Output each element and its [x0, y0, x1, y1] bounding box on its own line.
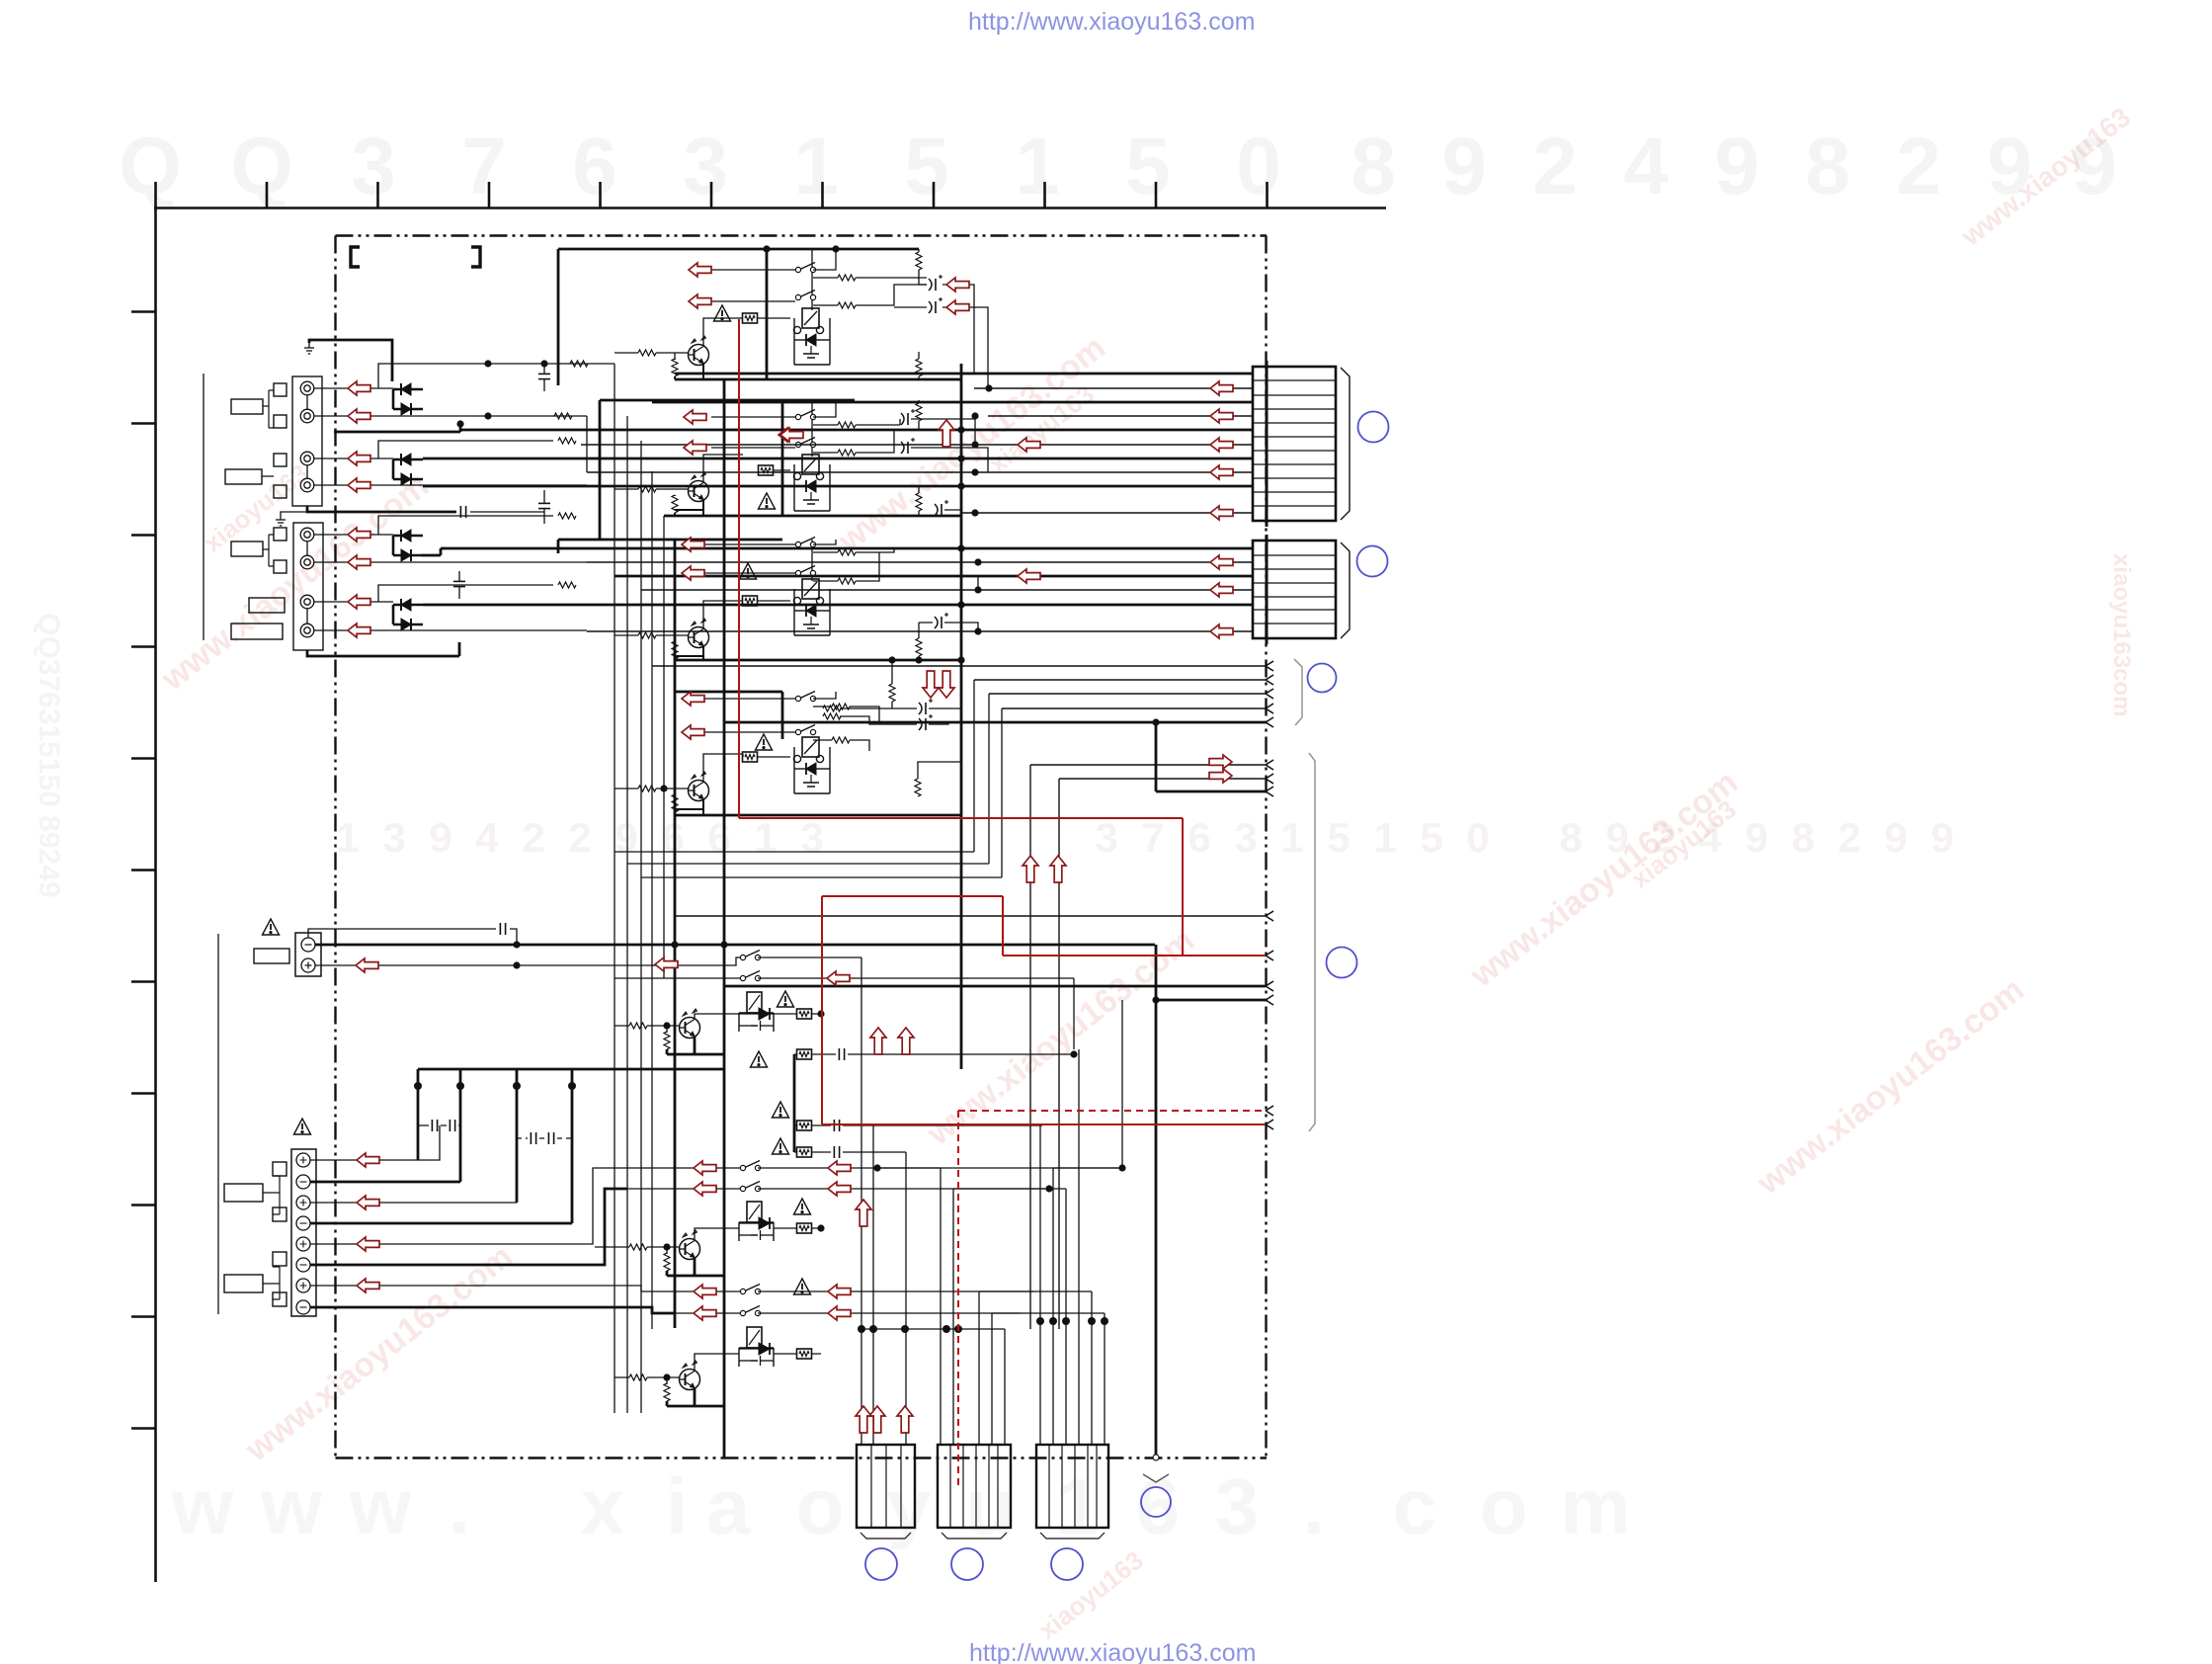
cap C on x551 — [538, 374, 550, 378]
emitter resistor Q5 — [664, 1032, 670, 1049]
wire drop x917 — [905, 1152, 907, 1445]
arrow ch6 Ra — [828, 1161, 851, 1175]
connector CN-8 box — [291, 1149, 316, 1316]
resistor vertical ch3 left — [889, 684, 895, 702]
jack J7 — [300, 595, 314, 609]
base resistor Q6 — [629, 1244, 647, 1250]
wire harness y717 — [1002, 707, 1266, 709]
boxed resistor ch6 — [797, 1223, 812, 1233]
base resistor Q7 — [629, 1374, 647, 1380]
wire bus y435 thick — [460, 429, 1253, 432]
wire bus y421 thin — [988, 415, 1253, 417]
warning triangle near CN-mid — [263, 919, 280, 935]
switch S4b — [795, 725, 815, 735]
junction dots cap bank — [414, 1082, 576, 1090]
emitter resistor Q4 — [672, 794, 678, 812]
resistor vertical ch4 right — [915, 779, 921, 796]
svg-text:4: 4 — [1623, 122, 1669, 211]
wire drop x1079 — [1049, 1189, 1066, 1445]
blue circle CNB2 — [951, 1548, 983, 1580]
wire resbox4 link — [743, 754, 790, 757]
wire S2c row453-458 — [711, 430, 894, 453]
rail ch2 bottom thick y522 — [664, 515, 961, 518]
connector CN-mid 2pin — [295, 933, 321, 976]
svg-text:4: 4 — [475, 814, 499, 861]
red wire vertical x832 — [821, 896, 823, 1124]
resistor R row522 — [558, 513, 576, 519]
transistor Q4 — [689, 772, 709, 801]
ecap ch2 a — [901, 409, 915, 425]
switch S2a — [795, 410, 815, 420]
wire S1a row273 — [711, 249, 836, 270]
jack J5 — [300, 528, 314, 541]
arrow ch1 a — [689, 263, 711, 277]
arrow up ch5 b — [898, 1028, 914, 1054]
svg-text:x: x — [581, 1462, 625, 1550]
top ticks — [154, 182, 157, 208]
svg-text:3: 3 — [1095, 814, 1117, 861]
wire harness vert x986 — [614, 680, 974, 852]
arrow bus y478 — [1210, 465, 1233, 479]
wire drop x884 — [872, 1125, 874, 1445]
warning triangle ch5 — [778, 991, 794, 1007]
svg-text:QQ376315150 89249: QQ376315150 89249 — [33, 613, 65, 898]
red wire horizontal y967 to chevron — [1003, 955, 1266, 957]
wire bus y450 thin — [581, 444, 1253, 446]
blue circle CN1 — [1358, 412, 1389, 443]
arrow right-double a — [1209, 755, 1232, 769]
junction dots right bus cn2 — [957, 544, 981, 634]
warning triangle ch7 — [794, 1279, 811, 1294]
rail ch4 top thick y700 — [675, 692, 782, 739]
wire jack1 signal — [314, 387, 393, 389]
wire vbus x733 thick main — [723, 379, 726, 1457]
wire resbox7 — [774, 1353, 821, 1355]
diode pair DP4 — [393, 599, 423, 630]
wire harness y774 — [1030, 765, 1266, 1329]
arrow down pair a — [923, 671, 939, 698]
wire resbox to relay — [757, 317, 790, 319]
wire bus y583 thick — [614, 575, 1253, 578]
wire relay feed from rail — [811, 249, 813, 310]
wire S4c row741-749 — [704, 732, 869, 751]
junction dot base6 — [663, 1243, 670, 1250]
resistor S3b — [838, 549, 856, 555]
emitter resistor Q7 — [664, 1383, 670, 1401]
pins of CN-8 — [296, 1153, 310, 1314]
wire vbus x683 thick — [674, 540, 677, 1328]
resistor feed c — [823, 706, 841, 711]
svg-text:u: u — [966, 1462, 1015, 1550]
wire bus y639 thin — [587, 630, 1253, 632]
wire collector Q1 — [703, 318, 743, 346]
wire top elbow thick — [309, 340, 392, 381]
wire ecap-to-bus riser b — [942, 307, 988, 388]
arrow right-double b — [1209, 769, 1232, 783]
wire harness vert x1001 — [627, 694, 989, 864]
resistor vertical ch3 — [916, 638, 922, 656]
switch S1b — [795, 291, 815, 300]
svg-text:9: 9 — [1745, 814, 1767, 861]
frame top — [336, 234, 1268, 236]
blue circle CNB1 — [865, 1548, 897, 1580]
arrow ecap1a — [946, 278, 969, 291]
rail ch1 bottom thick y384 — [675, 378, 961, 381]
wire harness y788 — [1059, 779, 1266, 1329]
svg-text:1: 1 — [793, 122, 839, 211]
chevron y731 — [1266, 717, 1273, 727]
arrow ch6 Lb — [694, 1182, 716, 1196]
wire top cap branch y940 — [308, 929, 517, 945]
switch S7a — [740, 1285, 760, 1294]
junction dots rail1 — [763, 245, 839, 252]
arrow jack4 — [348, 478, 370, 492]
svg-text:i: i — [666, 1462, 688, 1550]
wire minus pin thick long rail y956 — [315, 944, 1155, 947]
link lines CN-8 — [263, 1176, 280, 1299]
arrow up bottom a — [856, 1406, 871, 1433]
switch S5b — [740, 971, 760, 981]
harness B gray bracket — [1309, 753, 1315, 1131]
arrow cn8 p3 — [357, 1196, 379, 1209]
boxed resistor ch4 — [743, 752, 758, 762]
jack J2 — [300, 409, 314, 423]
arrow up bottom c — [897, 1406, 913, 1433]
wire gnd link — [281, 512, 307, 515]
red wire horizontal y1138 to chevron — [822, 1123, 1266, 1125]
CN-8 wires: p5 — [310, 1168, 614, 1244]
faint big letters bottom www.xiaoyu163.com — [171, 1462, 1631, 1550]
wire trio1 right — [843, 1124, 1042, 1126]
warning triangle ch2 — [759, 493, 776, 509]
boxed resistor ch1 — [743, 313, 758, 323]
wire cap drop — [543, 364, 545, 391]
svg-text:5: 5 — [904, 122, 949, 211]
wire collector Q4 — [703, 754, 743, 782]
red wire main vertical x748 — [738, 319, 740, 818]
wire bus y478 thin — [587, 471, 1253, 473]
wire bus y519 thin — [961, 512, 1253, 514]
arrow ch2 b — [684, 441, 706, 455]
wire drop x965 — [953, 1189, 1049, 1445]
transistor Q2 — [689, 472, 709, 502]
arrow jack3 — [348, 452, 370, 465]
wire ecap b feed — [894, 306, 927, 308]
switch S6a — [740, 1161, 760, 1171]
warning triangle trio2 — [773, 1138, 789, 1154]
faint big digits row top — [119, 122, 2117, 211]
wire S1b throw row281 resistor — [813, 277, 927, 279]
resistor right vertical ch2 — [916, 403, 922, 421]
svg-text:2: 2 — [522, 814, 544, 861]
transistor Q3 — [689, 619, 709, 648]
red wire horizontal y907 — [822, 895, 1003, 897]
wire emitter Q3 — [675, 641, 703, 660]
wire harness y688 — [974, 679, 1266, 681]
svg-text:9: 9 — [1714, 122, 1760, 211]
svg-text:y: y — [887, 1462, 932, 1550]
arrow bus y450 — [1210, 438, 1233, 452]
svg-text:8: 8 — [1351, 122, 1396, 211]
arrow up mid b — [1050, 856, 1066, 882]
wire jack4 signal — [314, 484, 587, 486]
resistor S2b — [838, 422, 856, 428]
svg-text:8: 8 — [1559, 814, 1582, 861]
svg-text:.: . — [449, 1462, 470, 1550]
emitter resistor Q3 — [672, 641, 678, 659]
svg-text:9: 9 — [1441, 122, 1487, 211]
jack J3 — [300, 452, 314, 465]
junction dot resbox6 — [817, 1224, 824, 1231]
svg-text:7: 7 — [1141, 814, 1164, 861]
junction dot base7 — [663, 1373, 670, 1380]
wire vbus x565 — [557, 249, 560, 385]
arrow up ch6 — [856, 1200, 871, 1226]
svg-text:1: 1 — [1280, 814, 1303, 861]
junction dots y956 — [513, 941, 520, 968]
relay RY6 — [739, 1202, 774, 1241]
wire emitter Q2 — [675, 495, 703, 516]
wire drop x1066 — [1053, 1000, 1122, 1445]
wire harness vert x1014 — [641, 708, 1002, 877]
relay RY1 — [793, 308, 830, 365]
CN-8 wires: p4 thick — [310, 1222, 572, 1225]
switch S5a — [740, 951, 760, 960]
resistor R row592 — [558, 582, 576, 588]
arrow ch3 b — [682, 566, 704, 580]
wire vbus x649 long — [640, 441, 642, 1413]
wire ch3 ecap riser — [879, 548, 978, 590]
wire S7a row1307 — [641, 1290, 1033, 1292]
rail ch2 top thick y405 — [600, 399, 855, 402]
label box — [254, 949, 289, 963]
svg-text:1: 1 — [336, 814, 359, 861]
blue circle CNB3 — [1051, 1548, 1083, 1580]
arrow ch4 a — [682, 692, 704, 706]
svg-text:.: . — [1303, 1462, 1325, 1550]
wire jack3 signal — [314, 458, 393, 459]
wire jack7 signal — [314, 601, 393, 603]
wire vbus x973 thick — [960, 364, 963, 1069]
warning triangle above — [294, 1119, 311, 1134]
wire emitter Q6 thick — [667, 1258, 724, 1276]
svg-text:w: w — [171, 1462, 234, 1550]
wire vbus x635 long — [626, 416, 628, 1413]
wire jack2 signal — [314, 415, 587, 417]
red wire horizontal y828 — [739, 817, 1183, 819]
wire jack7 riser — [378, 585, 553, 602]
wire drop x1004 — [992, 1313, 1021, 1445]
CN1 bracket — [1341, 368, 1350, 520]
wire emitter Q5 thick — [667, 1037, 724, 1054]
wire base Q7 — [614, 1377, 679, 1384]
warning triangle ch5-2 — [751, 1051, 768, 1067]
wire resbox3 to relay — [757, 600, 790, 602]
resistor R on row368 — [570, 361, 588, 367]
svg-text:Q: Q — [230, 122, 293, 211]
wire harness y1012 thick — [1156, 999, 1266, 1002]
ecap ch3 c — [919, 699, 933, 714]
svg-text:6: 6 — [707, 814, 730, 861]
ground near top elbow — [304, 343, 314, 354]
wire harness y674 — [652, 665, 1266, 667]
wire S3a row551 — [704, 540, 836, 544]
arrow bus y421 — [1210, 409, 1233, 423]
jack J8 — [300, 624, 314, 637]
wire collector Q5 — [695, 1014, 739, 1019]
relay RY4 — [793, 737, 830, 793]
wire drop x1092 — [1078, 1049, 1080, 1445]
switch S3a — [795, 538, 815, 547]
left ticks — [131, 310, 155, 313]
wire trio2 right — [843, 1151, 906, 1153]
wire resbox2 to relay — [773, 469, 790, 471]
boxed resistor ch7 — [797, 1349, 812, 1359]
rail ch1 top thick y252 — [558, 248, 919, 251]
rail thick y955 from cn-mid (drawn) crossing: junction dots — [671, 941, 727, 948]
ecap ch2 b — [901, 438, 915, 454]
wire harness y802 thick — [1156, 722, 1266, 791]
wire ecap3a — [919, 623, 978, 631]
wire drop x1053 — [1039, 1125, 1041, 1445]
resistor R row421 — [554, 413, 572, 419]
svg-text:w: w — [349, 1462, 412, 1550]
base resistor Q4 — [638, 786, 656, 791]
svg-text:9: 9 — [614, 814, 637, 861]
svg-text:www.xiaoyu163.com: www.xiaoyu163.com — [1750, 970, 2031, 1203]
diode pair DP1 — [393, 383, 423, 415]
junction dots rail3 — [888, 656, 964, 663]
switch S4a — [795, 692, 815, 702]
chevron y802 — [1266, 787, 1273, 796]
chevron red y967 — [1266, 951, 1273, 960]
arrow ch6 La — [694, 1161, 716, 1175]
arrow ecap1b — [946, 300, 969, 314]
bus thick y1082 — [418, 1068, 724, 1071]
svg-text:1: 1 — [754, 814, 777, 861]
label link lines — [262, 390, 274, 566]
arrow ch7 Lb — [694, 1306, 716, 1320]
drop x466 — [459, 1069, 462, 1182]
wire bus y407 thick — [652, 401, 1253, 404]
junction dot x1170 y1012 — [1152, 996, 1159, 1003]
arrow jack2 — [348, 409, 370, 423]
arrow jack8 — [348, 624, 370, 637]
arrow 2pin plus — [356, 958, 378, 972]
faint vertical text far left — [33, 613, 65, 898]
resistor right vertical ch2 bottom — [916, 493, 922, 511]
blue circle harness B — [1327, 948, 1357, 978]
terminal squares left of jacks — [274, 383, 287, 573]
chevron y702 — [1266, 689, 1273, 699]
svg-text:3: 3 — [683, 122, 728, 211]
wire base Q4 — [614, 788, 688, 790]
arrow ch1 b — [689, 294, 711, 308]
boxed resistor ch3 — [743, 596, 758, 606]
wire trio1 — [794, 1124, 831, 1126]
wire bus y597 thin — [641, 589, 1253, 591]
wire thick row435 from shields — [334, 424, 460, 432]
relay RY7 — [739, 1327, 774, 1367]
emitter resistor Q6 — [664, 1253, 670, 1271]
wire S3b resistor row559 — [813, 551, 879, 553]
svg-text:2: 2 — [1896, 122, 1941, 211]
wire plus pin thin y977 — [315, 957, 743, 965]
svg-text:9: 9 — [1884, 814, 1907, 861]
transistor Q5 — [680, 1009, 700, 1039]
wire S5b row990 — [614, 978, 1074, 1049]
chevron y674 — [1266, 661, 1273, 671]
wire res930 ch2b — [918, 486, 920, 516]
switch S6b — [740, 1182, 760, 1192]
wire drop x1017 — [861, 1329, 1005, 1445]
arrow ch2 a — [684, 410, 706, 424]
wire vbus x776 — [766, 249, 769, 379]
rail ch3 bottom thick y668 — [675, 659, 961, 662]
arrow cn8 p7 — [357, 1279, 379, 1292]
wire ecap2a — [900, 419, 975, 445]
wire jack5 riser — [378, 516, 553, 535]
svg-text:1: 1 — [1373, 814, 1396, 861]
wire S1b row301-309 — [711, 285, 927, 305]
chevron y774 — [1266, 760, 1273, 770]
wire base Q2 — [614, 488, 688, 490]
cap on y940 — [500, 923, 505, 935]
svg-text:o: o — [1480, 1462, 1528, 1550]
wire S4a row707 — [704, 692, 836, 699]
arrow up ch5 a — [870, 1028, 886, 1054]
svg-text:5: 5 — [1420, 814, 1442, 861]
wire vbus x660 long — [651, 471, 653, 1329]
boxed resistor ch5-2 — [797, 1049, 812, 1059]
rail ch4 bottom thick y825 — [675, 814, 746, 817]
series caps pair y1152 — [517, 1137, 572, 1139]
arrow up near cn1 — [939, 420, 954, 447]
wire jack stems group1 — [306, 395, 308, 478]
jack group 2 box — [293, 523, 323, 650]
arrow bus y639 — [1210, 624, 1233, 638]
harness A gray bracket — [1294, 659, 1302, 725]
chevron y788 — [1266, 774, 1273, 784]
relay RY5 — [739, 992, 774, 1032]
switch S1a — [795, 263, 815, 273]
svg-text:c: c — [1393, 1462, 1437, 1550]
CN-8 wires: p2 thick — [310, 1181, 460, 1184]
wire relay2 feed — [811, 400, 813, 457]
wire harness y998 thick — [724, 985, 1266, 988]
svg-text:9: 9 — [1930, 814, 1953, 861]
transistor Q6 — [680, 1230, 700, 1260]
arrow ch5 left — [655, 957, 678, 971]
ruler top line — [154, 207, 1386, 209]
wire relay3 feed — [811, 540, 813, 581]
arrow ch7 Rb — [828, 1306, 851, 1320]
arrow ch2 c right side — [778, 428, 801, 442]
arrow ch3 a — [682, 538, 704, 551]
wire drop x872 — [758, 957, 861, 1445]
wire bus y555 thick — [422, 548, 1253, 555]
warning triangle ch4 — [756, 734, 773, 750]
wire resbox5 — [774, 1013, 821, 1015]
wire collector Q7 — [695, 1354, 739, 1371]
wire bus y378 thick — [675, 373, 1253, 375]
wire emitter Q4 — [675, 794, 703, 815]
warning triangle ch6 — [794, 1199, 811, 1214]
resistor S2c — [838, 450, 856, 456]
svg-text:Q: Q — [119, 122, 182, 211]
svg-text:a: a — [706, 1462, 751, 1550]
arrow ch4 b — [682, 725, 704, 739]
